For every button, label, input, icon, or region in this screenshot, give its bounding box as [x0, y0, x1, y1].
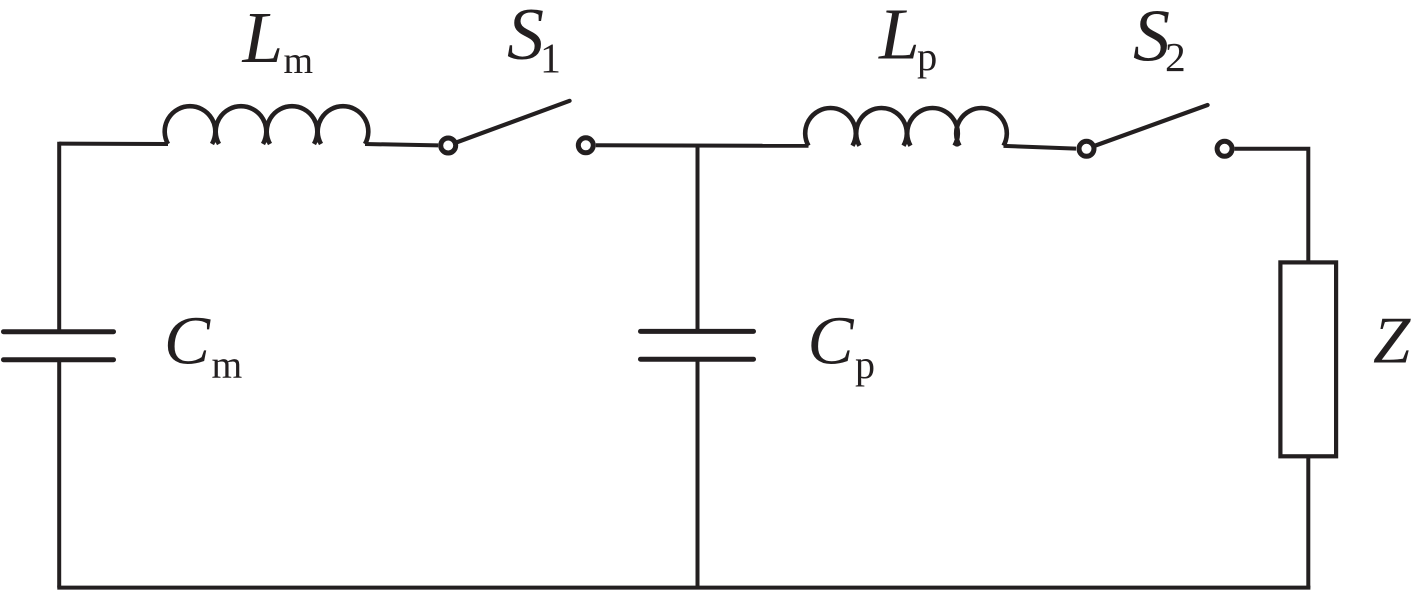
svg-text:1: 1 [540, 36, 561, 82]
wire: S2 right contact to top-right corner and down to Z [1235, 149, 1309, 263]
wire: middle vertical upper segment (top node down to C_p) [696, 146, 700, 332]
wire: middle vertical lower segment (C_p down to bottom rail) [696, 359, 700, 587]
switch S2 right contact circle [1217, 141, 1232, 156]
switch S1 blade (open, tilted up) [458, 101, 570, 142]
wire: top-left horizontal rail from left corner to L_m [59, 142, 168, 146]
wire: bottom rail [57, 586, 1310, 590]
svg-text:2: 2 [1165, 34, 1186, 80]
svg-text:p: p [855, 342, 875, 387]
svg-text:S: S [507, 0, 544, 76]
switch S1 left contact circle [441, 138, 456, 153]
svg-text:m: m [212, 343, 243, 387]
svg-text:L: L [878, 0, 920, 75]
capacitor C_p bottom plate [641, 357, 754, 362]
wire: L_p to S2 left contact [1004, 146, 1077, 149]
capacitor C_m top plate [4, 329, 114, 334]
capacitor C_m bottom plate [4, 357, 114, 362]
wire: left rail upper segment (corner down to C_m) [57, 142, 61, 332]
capacitor C_p top plate [641, 329, 754, 334]
switch S2 blade (open, tilted up) [1096, 105, 1208, 145]
wire: S1 right contact across middle node to L_p [596, 143, 809, 148]
svg-text:L: L [242, 0, 284, 78]
inductor L_m (4 humps) [165, 106, 369, 144]
svg-text:p: p [917, 34, 937, 79]
svg-text:C: C [164, 303, 211, 379]
svg-text:Z: Z [1373, 304, 1411, 378]
wire: Z bottom to bottom rail [1306, 456, 1310, 587]
switch S2 left contact circle [1079, 141, 1094, 156]
inductor L_p (4 humps) [805, 108, 1007, 146]
svg-text:C: C [808, 303, 855, 379]
wire: L_m to S1 left contact [365, 144, 438, 145]
impedance Z box [1280, 262, 1336, 456]
switch S1 right contact circle [578, 138, 593, 153]
svg-text:m: m [284, 40, 314, 82]
wire: left rail lower segment (C_m down to bottom rail) [57, 360, 61, 588]
